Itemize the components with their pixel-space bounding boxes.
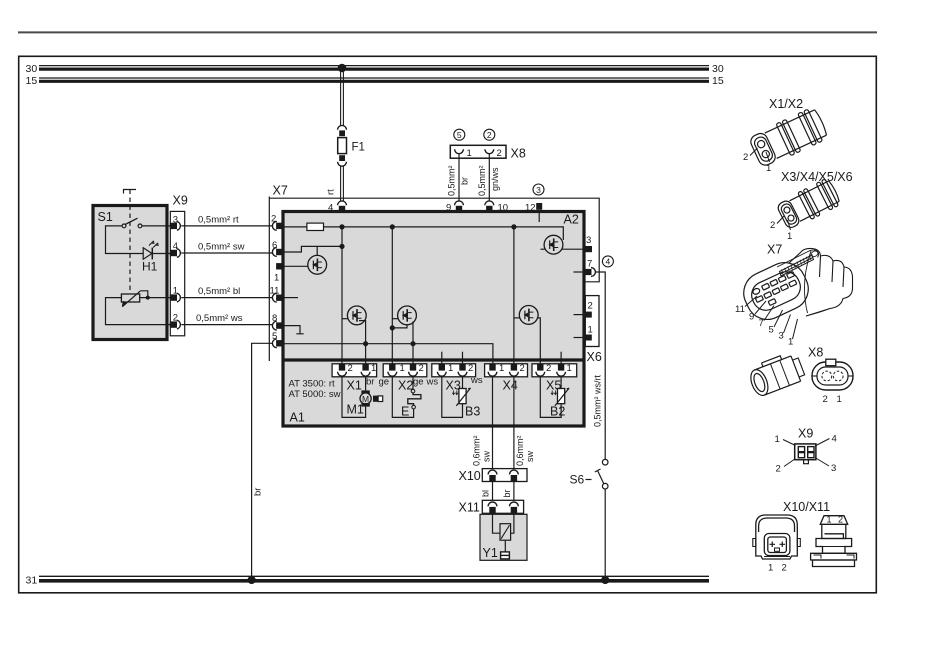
svg-text:X8: X8 bbox=[511, 147, 526, 161]
connector view X8 bbox=[746, 346, 853, 406]
wire Q3 drain down to X2:2 bbox=[412, 322, 414, 364]
junction Q2 column on ground rail bbox=[363, 341, 368, 346]
svg-text:AT 3500: rt: AT 3500: rt bbox=[289, 379, 335, 390]
wire Q4 output down to X5:2 bbox=[537, 318, 540, 364]
F1 holder upper contact bbox=[338, 125, 347, 136]
node 31 label left bbox=[26, 575, 38, 587]
label ge at X1 bbox=[379, 377, 390, 388]
X7 pin 5 bbox=[272, 331, 283, 348]
X11 pin 2 bbox=[510, 502, 519, 514]
svg-text:X1: X1 bbox=[347, 379, 362, 393]
svg-text:10: 10 bbox=[498, 203, 509, 214]
svg-text:B2: B2 bbox=[550, 405, 565, 419]
svg-text:15: 15 bbox=[712, 75, 724, 87]
X8 pin 1 bbox=[455, 148, 472, 159]
wire X9:1 to X7:11 0,5mm2 bl bbox=[181, 286, 272, 298]
X7 pin 6 bbox=[272, 240, 283, 256]
svg-text:F1: F1 bbox=[352, 142, 365, 154]
svg-text:X7: X7 bbox=[273, 184, 288, 198]
svg-text:7: 7 bbox=[759, 318, 764, 329]
junction gate link on pin4 column bbox=[339, 244, 344, 249]
node 30 label right bbox=[712, 63, 724, 75]
wire pin4 column vertical bbox=[342, 227, 348, 364]
wire X9:4 to X7:6 0,5mm2 sw bbox=[181, 242, 272, 254]
wire switch to pin 3 bbox=[142, 225, 170, 227]
connector X7 strip bbox=[269, 184, 599, 362]
wire pin1 to Q1 gate bbox=[283, 265, 308, 267]
svg-text:12: 12 bbox=[525, 203, 536, 214]
X7 pin 1 bbox=[274, 263, 283, 283]
X7 pin 2 bbox=[271, 214, 283, 231]
connector X1 bbox=[332, 364, 377, 393]
switch S1 housing bbox=[93, 206, 167, 340]
svg-text:1: 1 bbox=[787, 231, 792, 242]
manual actuator symbol above S1 bbox=[124, 190, 137, 194]
svg-text:bl: bl bbox=[481, 490, 491, 497]
wire X8:2 to X7:10 0,5mm2 gn/ws bbox=[477, 154, 500, 201]
X6 pin 2 bbox=[574, 301, 593, 318]
X7 pin 9 bbox=[446, 201, 463, 214]
svg-text:sw: sw bbox=[482, 451, 492, 463]
LED H1 bbox=[142, 241, 158, 274]
wire Q3 column vertical bbox=[392, 227, 398, 364]
actuator dashed link bbox=[129, 190, 131, 293]
label A2 bbox=[564, 213, 579, 227]
connector X6 housing bbox=[585, 296, 602, 364]
label ws at X2 bbox=[426, 377, 439, 388]
junction at Q4 column bbox=[511, 224, 516, 229]
wire Q4 column vertical bbox=[514, 227, 520, 364]
svg-text:2: 2 bbox=[588, 301, 593, 312]
X5 pin 1 bbox=[557, 363, 572, 376]
svg-text:11: 11 bbox=[735, 304, 745, 315]
X9 pin 2 bbox=[170, 313, 181, 329]
X9 pin 3 bbox=[170, 214, 181, 230]
svg-text:2: 2 bbox=[838, 515, 843, 525]
svg-text:1: 1 bbox=[499, 363, 504, 374]
internal ground rail from pin 5 bbox=[283, 344, 493, 364]
wire X10:2 to X11:2 br bbox=[502, 482, 514, 503]
svg-text:M1: M1 bbox=[347, 403, 364, 417]
svg-text:31: 31 bbox=[26, 575, 38, 587]
label 4 circled bbox=[602, 256, 613, 267]
svg-text:X7: X7 bbox=[767, 243, 782, 257]
svg-text:1: 1 bbox=[837, 394, 842, 405]
svg-text:2: 2 bbox=[487, 130, 492, 140]
svg-text:30: 30 bbox=[26, 63, 38, 75]
wire F1 down to X7:4 (double line) rt bbox=[326, 167, 344, 202]
svg-text:X9: X9 bbox=[173, 194, 188, 208]
top rule bbox=[18, 31, 877, 33]
connector X3 bbox=[432, 364, 476, 393]
X1 pin 2 bbox=[338, 363, 353, 376]
svg-text:0,5mm² bl: 0,5mm² bl bbox=[198, 286, 240, 297]
svg-text:0,5mm²: 0,5mm² bbox=[477, 165, 487, 196]
wire E loop to X2:1 bbox=[392, 376, 413, 417]
X9 pin 1 bbox=[170, 286, 181, 302]
wire X9:2 to X7:8 0,5mm2 ws bbox=[181, 313, 272, 324]
label A1 bbox=[290, 411, 305, 425]
wire X9:3 to X7:2 0,5mm2 rt bbox=[181, 215, 272, 226]
svg-text:1: 1 bbox=[371, 363, 376, 374]
svg-text:X10: X10 bbox=[459, 469, 481, 483]
wire bus30 down to F1 (double line) bbox=[341, 68, 344, 125]
svg-text:br: br bbox=[253, 488, 264, 496]
connector X9 strip bbox=[170, 194, 188, 336]
X7 pin 11 bbox=[270, 286, 283, 303]
solenoid symbol in Y1 bbox=[500, 524, 511, 541]
svg-text:1: 1 bbox=[467, 148, 472, 159]
svg-text:1: 1 bbox=[827, 515, 832, 525]
label ge at X2 bbox=[413, 377, 424, 388]
junction on bus 31 at S6 wire bbox=[601, 576, 609, 584]
svg-text:X8: X8 bbox=[808, 346, 823, 360]
wire X10:1 to X11:1 bl bbox=[481, 482, 493, 503]
wire Q5 to pin 3 bbox=[562, 248, 584, 250]
X4 pin 2 bbox=[510, 363, 525, 376]
svg-text:X11: X11 bbox=[459, 501, 480, 515]
svg-text:2: 2 bbox=[546, 363, 551, 374]
valve Y1 housing bbox=[480, 514, 527, 560]
wire LED to pin 4 bbox=[152, 253, 170, 255]
X6 pin 1 bbox=[574, 325, 593, 341]
motor M1 bbox=[347, 376, 372, 416]
A1/A2 divider line bbox=[282, 358, 585, 361]
internal supply rail wire bbox=[283, 227, 563, 240]
svg-text:0,5mm² rt: 0,5mm² rt bbox=[198, 215, 239, 226]
junction on bus 30 bbox=[338, 64, 347, 73]
svg-text:1: 1 bbox=[766, 163, 771, 174]
svg-text:X9: X9 bbox=[798, 427, 813, 441]
svg-text:ws: ws bbox=[426, 377, 439, 388]
connector X8 bbox=[450, 145, 526, 160]
svg-text:S1: S1 bbox=[98, 210, 113, 224]
svg-text:9: 9 bbox=[446, 203, 451, 214]
svg-text:0,5mm² sw: 0,5mm² sw bbox=[198, 242, 245, 253]
svg-text:ge: ge bbox=[379, 377, 390, 388]
svg-text:X6: X6 bbox=[587, 350, 602, 364]
switch contact in S1 bbox=[122, 218, 142, 228]
svg-text:2: 2 bbox=[776, 464, 781, 475]
stub X3:1 bbox=[441, 352, 443, 364]
control unit A1 housing bbox=[283, 212, 584, 427]
stub X5:1 bbox=[560, 352, 562, 364]
svg-text:2: 2 bbox=[770, 220, 775, 231]
label 3 circled bbox=[533, 184, 544, 195]
wire bus 30 bbox=[39, 66, 709, 70]
svg-text:3: 3 bbox=[831, 463, 836, 474]
svg-text:Y1: Y1 bbox=[483, 546, 498, 560]
resistor in A2 bbox=[307, 223, 324, 230]
label br at X1 bbox=[366, 377, 374, 388]
X7 pin 12 bbox=[525, 203, 542, 214]
wire M1 loop to X1:2 bbox=[342, 376, 366, 417]
svg-text:2: 2 bbox=[823, 394, 828, 405]
svg-text:B3: B3 bbox=[465, 405, 480, 419]
svg-text:S6: S6 bbox=[570, 473, 585, 487]
connector X2 bbox=[383, 364, 427, 393]
svg-text:sw: sw bbox=[525, 451, 535, 463]
svg-text:1: 1 bbox=[400, 363, 405, 374]
label AT 3500: rt bbox=[289, 379, 335, 390]
connector view X1/X2 bbox=[743, 97, 829, 174]
X11 pin 1 bbox=[488, 502, 497, 514]
wire bus 15 bbox=[39, 78, 709, 81]
label 5 circled bbox=[454, 129, 465, 140]
svg-text:30: 30 bbox=[712, 63, 724, 75]
svg-text:X4: X4 bbox=[503, 379, 518, 393]
svg-text:4: 4 bbox=[606, 257, 611, 267]
wire B2 loop to X5:2 bbox=[540, 376, 561, 417]
svg-text:X1/X2: X1/X2 bbox=[769, 97, 803, 111]
X4 pin 1 bbox=[488, 363, 504, 376]
svg-text:5: 5 bbox=[769, 325, 774, 336]
wire Q3 source loop bbox=[392, 324, 407, 328]
svg-text:rt: rt bbox=[326, 189, 337, 195]
svg-text:A1: A1 bbox=[290, 411, 305, 425]
wire pin6 gate link bbox=[283, 246, 342, 252]
transistor Q1 bbox=[308, 246, 327, 274]
svg-text:3: 3 bbox=[779, 331, 784, 342]
switch S6 bbox=[570, 459, 609, 489]
svg-text:2: 2 bbox=[348, 363, 353, 374]
wire X4:1 down to X10:1 0,6mm2 sw bbox=[472, 376, 493, 470]
svg-text:ws: ws bbox=[470, 375, 483, 386]
wire X11:1 into Y1 bbox=[493, 514, 501, 534]
junction at Q3 column bbox=[390, 224, 395, 229]
svg-text:br: br bbox=[460, 177, 470, 185]
svg-text:2: 2 bbox=[743, 152, 748, 163]
svg-text:2: 2 bbox=[419, 363, 424, 374]
svg-text:4: 4 bbox=[832, 434, 837, 445]
stub X3:2 bbox=[462, 352, 464, 364]
connector view X9 bbox=[775, 427, 837, 475]
label ws at X3 bbox=[470, 375, 483, 386]
vent symbol in Y1 bbox=[501, 540, 510, 559]
X3 pin 1 bbox=[437, 363, 453, 376]
wire X8:1 to X7:9 0,5mm2 br bbox=[447, 154, 470, 201]
junction on bus 31 at br wire bbox=[248, 576, 256, 584]
svg-text:1: 1 bbox=[567, 363, 572, 374]
transistor Q4 bbox=[519, 306, 538, 325]
stub pin 8 bbox=[283, 326, 304, 334]
wire Q2 source down to X1:1 bbox=[359, 321, 366, 364]
fuse F1 bbox=[338, 138, 365, 154]
junction Q3 drain on ground rail bbox=[410, 341, 415, 346]
pin 7 right with mating contact bbox=[574, 259, 596, 277]
node 30 label left bbox=[26, 63, 38, 75]
transistor Q5 bbox=[541, 235, 563, 254]
border frame of diagram bbox=[19, 56, 877, 593]
junction at poti wiper bbox=[146, 296, 150, 300]
wire poti to pin 2 bbox=[106, 298, 171, 325]
svg-text:E: E bbox=[401, 405, 409, 419]
wire pin7 to S6 bbox=[593, 272, 606, 459]
stub from pin 12 bbox=[538, 211, 540, 222]
svg-text:br: br bbox=[502, 489, 512, 497]
svg-text:ge: ge bbox=[413, 377, 424, 388]
wire X4:2 down to X10:2 0,6mm2 sw bbox=[514, 376, 535, 470]
wire S6 to bus 31 bbox=[604, 489, 606, 576]
svg-text:1: 1 bbox=[448, 363, 453, 374]
X2 pin 2 bbox=[409, 363, 424, 376]
stub pin 11 bbox=[283, 297, 298, 299]
svg-text:1: 1 bbox=[274, 273, 279, 284]
svg-text:0,5mm² ws: 0,5mm² ws bbox=[196, 313, 243, 324]
node 15 label right bbox=[712, 75, 724, 87]
connector X10 bbox=[459, 469, 528, 483]
svg-text:0,5mm²: 0,5mm² bbox=[447, 165, 457, 196]
svg-text:3: 3 bbox=[586, 235, 591, 246]
X10 pin 1 bbox=[488, 470, 497, 481]
wire X11:2 into Y1 bbox=[511, 514, 514, 534]
connector X4 bbox=[485, 364, 528, 393]
X1 pin 1 bbox=[361, 363, 376, 376]
svg-text:4: 4 bbox=[328, 203, 333, 214]
svg-text:2: 2 bbox=[468, 363, 473, 374]
svg-text:1: 1 bbox=[775, 434, 780, 445]
connector X5 bbox=[532, 364, 577, 393]
junction Q3 source bbox=[390, 325, 395, 330]
connector view X10/X11 bbox=[753, 500, 857, 574]
svg-text:br: br bbox=[366, 377, 374, 388]
wire br from X7:5 to bus 31 bbox=[252, 343, 273, 576]
wire switch to LED bbox=[106, 226, 144, 254]
X7 pin 10 bbox=[485, 201, 508, 214]
node 15 label left bbox=[26, 75, 38, 87]
svg-text:2: 2 bbox=[497, 148, 502, 159]
junction at pin4 column bbox=[339, 224, 344, 229]
X8 pin 2 bbox=[485, 148, 502, 159]
svg-text:0,6mm²: 0,6mm² bbox=[515, 435, 525, 466]
F1 holder lower contact bbox=[338, 155, 347, 166]
svg-text:5: 5 bbox=[457, 130, 462, 140]
X7 pin 4 bbox=[328, 201, 346, 214]
svg-text:3: 3 bbox=[536, 185, 541, 195]
wire poti to pin 1 bbox=[140, 297, 170, 299]
svg-text:1: 1 bbox=[768, 563, 773, 574]
svg-text:X10/X11: X10/X11 bbox=[783, 500, 830, 514]
svg-text:9: 9 bbox=[749, 312, 754, 323]
X3 pin 2 bbox=[458, 363, 473, 376]
connector view X7 bbox=[735, 243, 853, 348]
svg-text:AT 5000: sw: AT 5000: sw bbox=[289, 389, 341, 400]
wire bus 31 bbox=[39, 576, 709, 581]
connector X11 bbox=[459, 500, 524, 514]
svg-text:A2: A2 bbox=[564, 213, 579, 227]
svg-text:0,6mm²: 0,6mm² bbox=[472, 435, 482, 466]
wire B3 loop to X3:1 bbox=[442, 376, 463, 417]
svg-text:X3/X4/X5/X6: X3/X4/X5/X6 bbox=[781, 170, 853, 184]
svg-text:H1: H1 bbox=[142, 260, 158, 274]
pin 3 right bbox=[584, 235, 592, 252]
X5 pin 2 bbox=[536, 363, 551, 376]
label 2 circled bbox=[484, 129, 495, 140]
svg-text:2: 2 bbox=[782, 563, 787, 574]
svg-text:15: 15 bbox=[26, 75, 38, 87]
connector view X3/X4/X5/X6 bbox=[770, 170, 853, 242]
X10 pin 2 bbox=[510, 470, 519, 481]
potentiometer in S1 bbox=[121, 291, 147, 307]
heater element E bbox=[401, 376, 421, 418]
X7 pin 8 bbox=[272, 313, 283, 330]
transistor Q3 bbox=[398, 306, 417, 325]
position sensor icon next to M1 bbox=[373, 396, 383, 402]
svg-text:0,5mm² ws/rt: 0,5mm² ws/rt bbox=[593, 375, 603, 428]
X9 pin 4 bbox=[170, 241, 181, 257]
X2 pin 1 bbox=[388, 363, 405, 376]
label AT 5000: sw bbox=[289, 389, 341, 400]
svg-text:2: 2 bbox=[520, 363, 525, 374]
sensor B3 bbox=[452, 376, 480, 418]
svg-text:1: 1 bbox=[588, 325, 593, 336]
sensor B2 bbox=[550, 376, 569, 418]
svg-text:gn/ws: gn/ws bbox=[490, 167, 500, 191]
transistor Q2 bbox=[347, 306, 366, 325]
